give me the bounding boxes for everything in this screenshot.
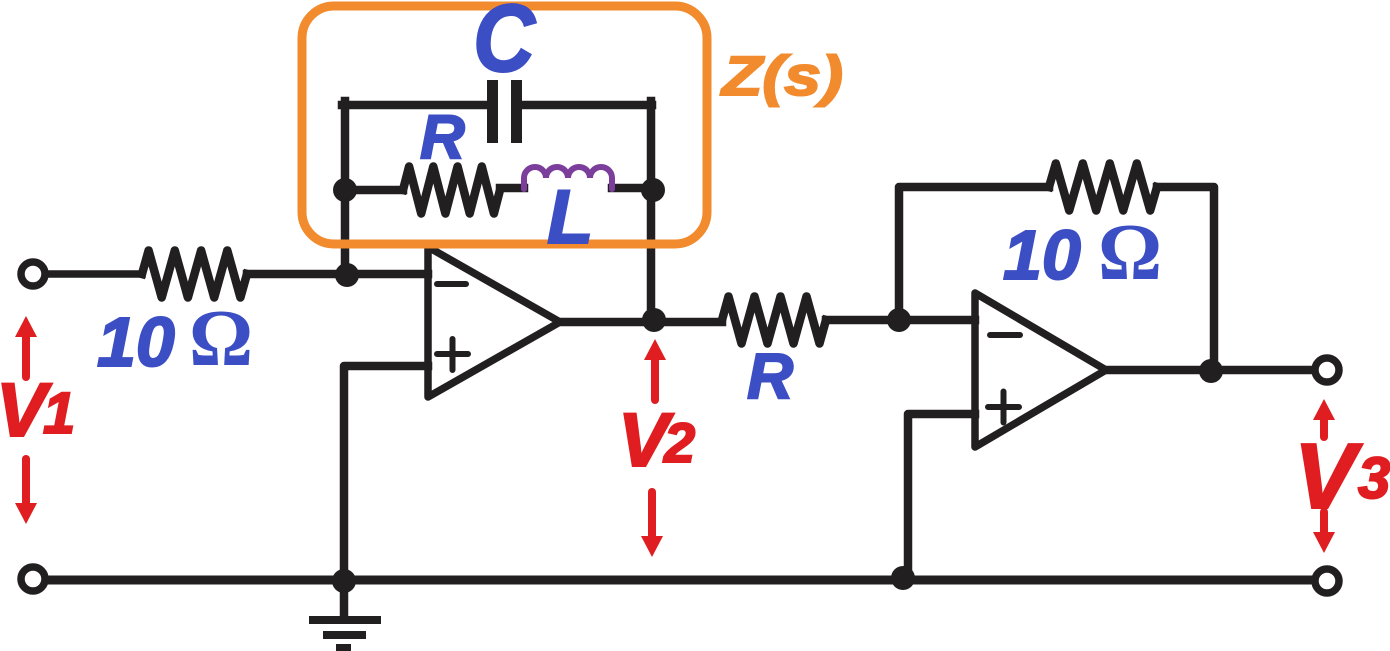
svg-text:3: 3 — [1358, 446, 1390, 511]
svg-text:2: 2 — [663, 411, 695, 474]
svg-text:Ω: Ω — [189, 295, 253, 383]
svg-text:10: 10 — [1003, 216, 1081, 294]
svg-text:L: L — [547, 175, 593, 260]
svg-text:C: C — [473, 0, 536, 92]
svg-text:V: V — [1294, 424, 1363, 528]
svg-text:Z(s): Z(s) — [720, 44, 843, 107]
svg-text:Ω: Ω — [1098, 209, 1162, 297]
svg-text:1: 1 — [43, 381, 75, 446]
svg-text:R: R — [420, 103, 465, 172]
svg-text:R: R — [747, 340, 793, 412]
svg-text:10: 10 — [97, 303, 175, 381]
